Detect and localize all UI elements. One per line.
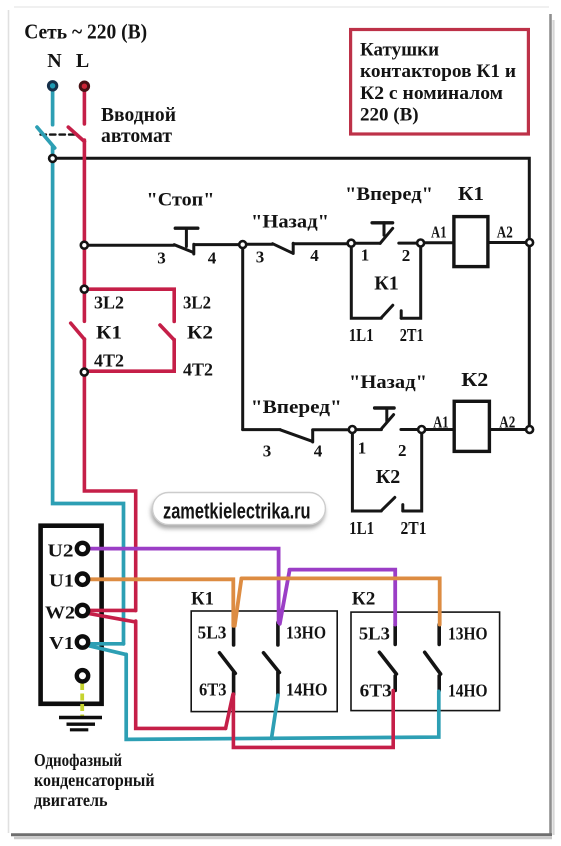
svg-text:1: 1 — [358, 439, 367, 458]
svg-text:220 (В): 220 (В) — [360, 105, 419, 126]
svg-text:А1: А1 — [433, 413, 449, 432]
svg-text:13НО: 13НО — [448, 624, 488, 644]
svg-text:4: 4 — [314, 442, 323, 461]
svg-text:U1: U1 — [49, 571, 74, 591]
svg-text:2: 2 — [398, 441, 407, 460]
svg-text:К2: К2 — [187, 323, 213, 344]
svg-text:К2: К2 — [461, 369, 488, 391]
svg-text:А2: А2 — [499, 413, 515, 432]
svg-text:W2: W2 — [45, 602, 75, 622]
svg-text:3: 3 — [256, 248, 265, 267]
svg-text:3: 3 — [263, 442, 272, 461]
svg-text:6Т3: 6Т3 — [360, 681, 392, 701]
svg-text:zametkielectrika.ru: zametkielectrika.ru — [163, 499, 311, 524]
svg-text:автомат: автомат — [101, 126, 172, 147]
svg-text:1L1: 1L1 — [349, 518, 374, 538]
svg-text:2Т1: 2Т1 — [400, 325, 424, 345]
svg-text:А1: А1 — [431, 223, 447, 242]
svg-text:"Стоп": "Стоп" — [147, 190, 215, 211]
svg-text:К1: К1 — [191, 590, 214, 610]
svg-text:двигатель: двигатель — [34, 790, 108, 810]
svg-text:14НО: 14НО — [448, 681, 488, 701]
svg-text:конденсаторный: конденсаторный — [34, 770, 155, 790]
svg-text:4Т2: 4Т2 — [94, 351, 124, 371]
svg-text:14НО: 14НО — [286, 680, 328, 700]
svg-text:6Т3: 6Т3 — [199, 680, 227, 700]
svg-text:Однофазный: Однофазный — [34, 750, 122, 770]
svg-text:V1: V1 — [49, 633, 74, 653]
svg-text:4: 4 — [310, 246, 319, 265]
svg-text:4: 4 — [208, 249, 217, 268]
svg-text:К2: К2 — [376, 466, 401, 488]
svg-text:К1: К1 — [458, 183, 484, 205]
svg-text:2Т1: 2Т1 — [401, 518, 427, 538]
svg-text:А2: А2 — [497, 223, 513, 242]
svg-text:3L2: 3L2 — [183, 293, 211, 313]
svg-text:1L1: 1L1 — [349, 325, 374, 345]
svg-text:"Вперед": "Вперед" — [345, 185, 433, 205]
svg-text:3: 3 — [157, 249, 166, 268]
svg-text:Сеть ~ 220 (В): Сеть ~ 220 (В) — [24, 20, 147, 44]
svg-text:"Назад": "Назад" — [349, 373, 427, 393]
svg-text:4Т2: 4Т2 — [183, 360, 213, 380]
svg-text:К2: К2 — [352, 590, 376, 610]
svg-text:13НО: 13НО — [286, 623, 326, 643]
svg-text:К1: К1 — [374, 273, 399, 295]
svg-text:контакторов К1 и: контакторов К1 и — [360, 61, 516, 82]
svg-text:К2 с номиналом: К2 с номиналом — [360, 83, 503, 104]
svg-text:L: L — [76, 50, 89, 72]
svg-text:2: 2 — [402, 246, 411, 265]
svg-text:5L3: 5L3 — [359, 624, 390, 644]
svg-text:N: N — [47, 50, 62, 72]
svg-text:5L3: 5L3 — [198, 623, 227, 643]
svg-text:Вводной: Вводной — [101, 105, 176, 126]
svg-text:"Вперед": "Вперед" — [251, 398, 342, 418]
svg-text:Катушки: Катушки — [360, 40, 439, 61]
svg-text:1: 1 — [361, 246, 370, 265]
svg-text:3L2: 3L2 — [94, 293, 124, 313]
svg-text:К1: К1 — [96, 323, 122, 344]
svg-text:U2: U2 — [48, 541, 74, 561]
svg-text:"Назад": "Назад" — [251, 213, 329, 233]
